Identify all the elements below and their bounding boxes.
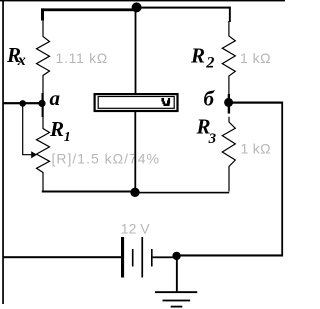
battery V1 plate 3 [141,237,143,278]
wire ground stem [176,257,178,292]
svg-text:1 kΩ: 1 kΩ [240,50,271,66]
wire node a horizontal [3,102,42,104]
battery V1 plate 2 [132,249,134,267]
svg-text:12 V: 12 V [121,221,150,237]
resistor R3 [222,117,235,192]
wire top rail right segment [136,7,231,9]
wire bottom rail right segment [135,192,229,194]
node bottom junction [130,188,139,197]
svg-text:1: 1 [64,130,71,145]
wire right rail [281,102,283,257]
svg-text:б: б [204,86,216,110]
node a [38,100,45,107]
wire voltmeter bottom lead [134,111,136,193]
wire top frame edge [0,0,285,1]
svg-text:[R]/1.5 kΩ/74%: [R]/1.5 kΩ/74% [52,151,161,167]
svg-text:1 kΩ: 1 kΩ [241,140,271,156]
node b [224,98,233,107]
resistor R2 [222,21,235,95]
wire left rail (battery negative to node a) [2,0,4,304]
voltmeter U1 outer case [95,94,178,111]
wire R2 top stub [229,7,231,22]
node top junction [132,2,142,12]
svg-text:R: R [49,117,64,141]
svg-text:3: 3 [208,131,217,147]
wire node b to right rail [231,102,283,104]
svg-text:R: R [190,44,205,68]
wire top rail left segment [41,8,137,11]
wire potentiometer wiper [23,106,32,155]
node wiper junction [19,100,26,107]
ground [155,291,197,307]
battery V1 plate 4 [151,249,153,267]
node battery-ground junction [172,252,180,260]
wire R3 top stub [228,105,230,114]
wiper arrowhead [31,151,37,158]
wire Rx bottom stub [42,93,44,104]
svg-text:x: x [17,52,26,69]
wire battery left lead [3,256,121,258]
wire battery right lead [153,256,174,258]
voltmeter unit glyph U [161,98,170,106]
voltmeter U1 inner display [98,97,174,109]
wire voltmeter top lead [135,11,137,94]
svg-text:a: a [50,86,61,110]
svg-text:2: 2 [205,54,214,71]
wire R2 bottom stub [228,94,230,103]
svg-text:1.11 kΩ: 1.11 kΩ [56,50,108,66]
wire top stub left branch [41,8,44,20]
battery V1 plate 1 [121,237,124,278]
wire R1 top stub [42,104,44,117]
resistor R1 (potentiometer) [37,116,50,191]
resistor Rx [37,20,50,95]
wire bottom right [178,254,283,256]
wire bottom rail left segment [42,191,135,193]
